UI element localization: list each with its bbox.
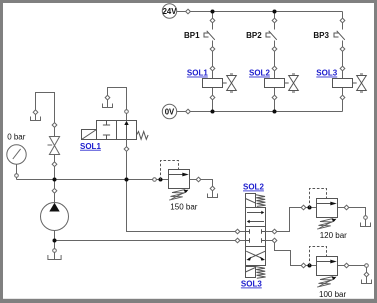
svg-text:SOL2: SOL2 xyxy=(249,69,270,78)
svg-text:BP2: BP2 xyxy=(246,31,262,40)
svg-text:SOL3: SOL3 xyxy=(316,69,337,78)
svg-text:BP3: BP3 xyxy=(313,31,329,40)
svg-text:SOL1: SOL1 xyxy=(187,69,208,78)
svg-text:120 bar: 120 bar xyxy=(320,231,347,240)
svg-text:24V: 24V xyxy=(163,7,178,16)
svg-text:100 bar: 100 bar xyxy=(319,290,346,299)
svg-text:150 bar: 150 bar xyxy=(170,203,197,212)
svg-text:BP1: BP1 xyxy=(184,31,200,40)
svg-text:SOL3: SOL3 xyxy=(241,280,262,289)
svg-text:SOL1: SOL1 xyxy=(80,142,101,151)
svg-text:0 bar: 0 bar xyxy=(7,132,26,141)
svg-text:0V: 0V xyxy=(165,107,175,116)
svg-text:SOL2: SOL2 xyxy=(243,183,264,192)
